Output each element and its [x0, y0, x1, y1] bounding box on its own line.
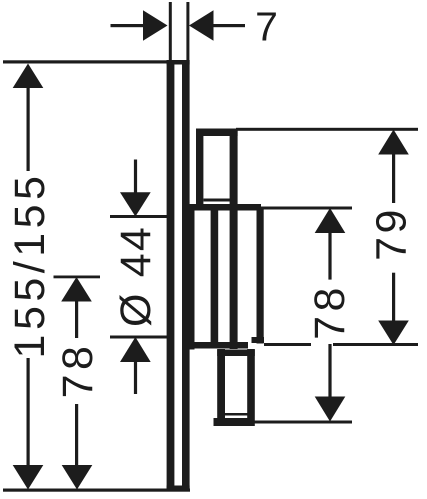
middle body right vertical line — [230, 207, 238, 349]
middle body top edge — [183, 204, 261, 211]
dimension line 155/155 lower segment — [27, 358, 30, 466]
lower handle right edge — [247, 349, 255, 426]
upper handle right edge — [230, 129, 238, 211]
arrowhead 155/155 top — [13, 64, 44, 89]
arrowhead 78 left bottom — [62, 465, 93, 490]
svg-text:79: 79 — [368, 206, 416, 261]
dimension line diameter 44 lower tail — [134, 362, 137, 394]
dimension line 78 right lower segment — [328, 344, 331, 397]
extension line diameter 44 top — [110, 215, 168, 218]
extension line 79 bottom segment b — [333, 343, 418, 346]
arrowhead 78 left top — [61, 277, 92, 302]
svg-text:Ø 44: Ø 44 — [112, 225, 160, 327]
dimension line 78 left lower segment — [75, 404, 78, 466]
dimension line 78 right upper segment — [328, 232, 331, 280]
arrowhead 155/155 bottom — [13, 465, 44, 490]
middle body left edge — [188, 204, 195, 350]
extension line 79 bottom segment a — [264, 343, 311, 346]
extension line plate bottom going left — [3, 489, 190, 492]
extension line plate top going left — [3, 60, 168, 63]
lower handle seam line — [224, 413, 248, 416]
arrowhead 79 bottom — [378, 321, 409, 346]
lower handle bottom edge — [214, 418, 255, 426]
svg-text:78: 78 — [306, 283, 354, 340]
dimension line 79 upper segment — [392, 154, 395, 203]
arrowhead diameter 44 bottom — [120, 337, 151, 362]
middle body inner vertical line — [211, 207, 219, 347]
dimension line 155/155 upper segment — [27, 87, 30, 171]
middle knob right edge — [257, 207, 264, 344]
dimension line 79 lower segment — [392, 273, 395, 321]
extension line 78 left top — [54, 276, 101, 279]
arrowhead 78 right top — [315, 208, 346, 233]
extension line 78 right top — [261, 207, 352, 210]
extension line above plate right — [186, 2, 189, 60]
upper handle top edge — [196, 129, 238, 137]
extension line diameter 44 bottom — [110, 336, 169, 339]
wall plate bottom edge — [167, 486, 190, 492]
wall plate right bar — [182, 60, 190, 491]
arrowhead diameter 44 top — [120, 192, 151, 216]
arrowhead 79 top — [378, 130, 409, 155]
dimension line 7 right tail — [213, 24, 245, 27]
middle body bottom edge — [183, 342, 248, 349]
lower handle top edge — [217, 350, 255, 357]
dimension line diameter 44 upper tail — [134, 160, 137, 194]
wall plate left bar — [167, 60, 175, 491]
svg-text:155/155: 155/155 — [6, 172, 54, 359]
lower handle left edge — [217, 349, 225, 426]
svg-text:78: 78 — [54, 342, 102, 399]
middle knob bottom edge — [252, 337, 265, 343]
dimension line 78 left upper segment — [75, 300, 78, 338]
arrowhead 7 left — [143, 10, 168, 41]
extension line 79 top — [236, 128, 418, 131]
dimension line 7 left tail — [111, 24, 145, 27]
wall plate top edge — [167, 60, 190, 65]
arrowhead 7 right — [189, 10, 214, 41]
extension line above plate left — [169, 2, 172, 60]
arrowhead 78 right bottom — [315, 397, 346, 422]
upper handle left edge — [196, 129, 203, 211]
extension line 78 right bottom — [254, 421, 352, 424]
upper handle seam line — [204, 199, 232, 202]
svg-text:7: 7 — [255, 4, 278, 50]
